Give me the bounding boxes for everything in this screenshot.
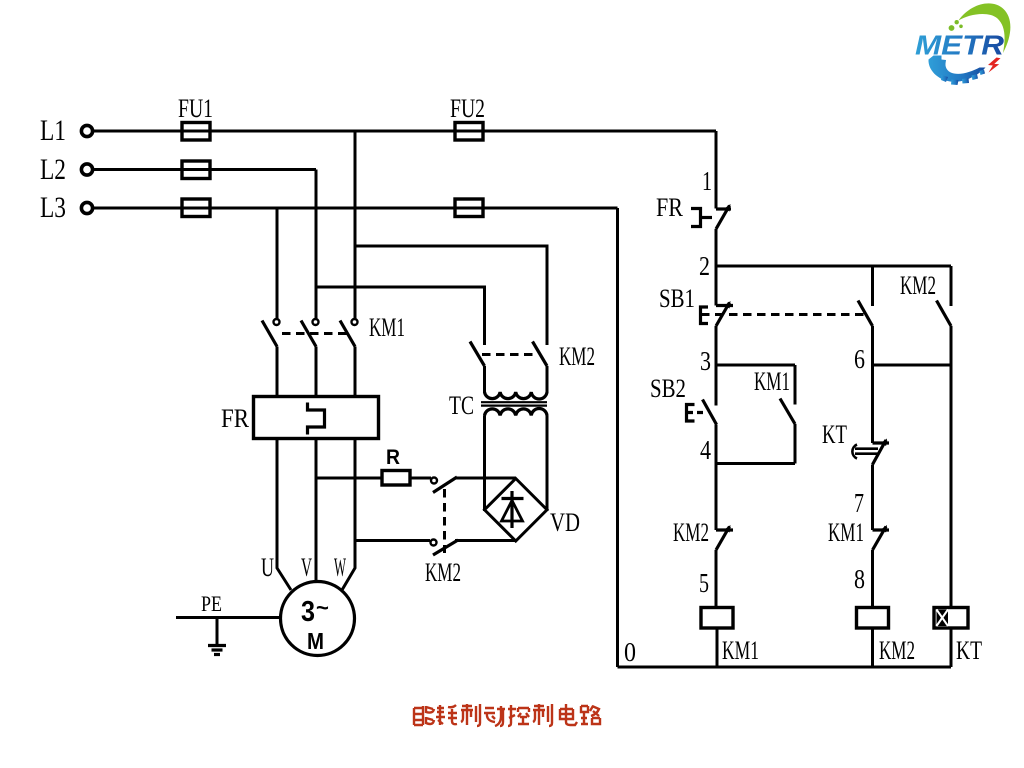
svg-text:3: 3 xyxy=(700,346,711,376)
contactor KM1 main contact pole1 xyxy=(262,319,280,397)
svg-text:W: W xyxy=(334,553,346,582)
svg-text:3: 3 xyxy=(301,596,315,628)
contactor KM2 interlock NC contact xyxy=(716,525,733,608)
contactor KM1 main contact pole2 xyxy=(301,319,319,397)
svg-text:6: 6 xyxy=(854,344,865,374)
node L2 xyxy=(40,153,66,186)
coil KT time relay xyxy=(934,608,968,668)
svg-text:R: R xyxy=(386,446,400,469)
title char 控 xyxy=(508,705,529,726)
wire node6 rail xyxy=(873,364,952,367)
fuse FU2 pole2 xyxy=(455,199,483,217)
contactor KM1 main contact pole3 xyxy=(340,319,358,397)
terminal L1 xyxy=(81,125,92,136)
svg-text:U: U xyxy=(261,553,274,582)
terminal L2 xyxy=(81,164,92,175)
mechanical link KM2 brake xyxy=(443,489,446,553)
svg-text:TC: TC xyxy=(449,391,474,420)
transformer TC primary winding xyxy=(485,392,548,399)
wire control feed from L1 xyxy=(715,131,718,209)
svg-text:KM1: KM1 xyxy=(722,636,759,665)
title char 电 xyxy=(560,704,577,725)
logo green swoosh xyxy=(959,3,1011,53)
wire TC secondary left to VD xyxy=(483,416,486,512)
contactor KM2 brake contact upper xyxy=(431,477,516,493)
title char 能 xyxy=(414,706,434,725)
svg-text:5: 5 xyxy=(699,568,709,598)
wire PE xyxy=(176,616,281,619)
svg-text:PE: PE xyxy=(201,591,222,616)
contactor KM1 latch NO contact xyxy=(780,365,795,464)
wire L3 rail xyxy=(93,207,618,210)
transformer TC secondary winding xyxy=(485,408,548,415)
wire branch from L1 vertical to KM2 right pole xyxy=(355,246,547,345)
motor M circle xyxy=(281,582,355,656)
svg-text:VD: VD xyxy=(550,508,580,537)
wire V phase to motor xyxy=(315,439,318,584)
svg-text:V: V xyxy=(301,553,312,582)
svg-text:FU2: FU2 xyxy=(450,94,485,123)
wire L2 rail xyxy=(93,168,316,171)
svg-text:FR: FR xyxy=(221,404,250,433)
wire bottom bus 0 xyxy=(618,666,952,669)
wire left control feed from L3 xyxy=(616,208,619,667)
svg-text:KM2: KM2 xyxy=(559,342,595,371)
node L3 xyxy=(40,191,66,224)
svg-text:SB1: SB1 xyxy=(659,284,695,313)
svg-text:KM1: KM1 xyxy=(369,313,405,342)
wire drop from L3 at x=277 xyxy=(276,208,279,322)
svg-text:FR: FR xyxy=(656,193,684,222)
svg-text:KT: KT xyxy=(822,420,847,449)
svg-text:KM2: KM2 xyxy=(425,558,461,587)
svg-text:L3: L3 xyxy=(40,191,66,224)
contactor KM1 interlock NC contact xyxy=(873,525,890,608)
relay FR control NC contact xyxy=(691,204,731,306)
pushbutton SB1 NC contact xyxy=(701,301,734,365)
node L1 xyxy=(40,114,66,147)
contactor KM2 latch NO contact xyxy=(937,266,952,608)
contactor KM2 main contact left pole xyxy=(470,342,485,394)
title char 动 xyxy=(484,706,505,726)
wire node4 rail xyxy=(716,462,795,465)
coil KM2 xyxy=(857,608,889,668)
wire L1 rail xyxy=(93,130,716,133)
svg-text:METR: METR xyxy=(915,30,1005,61)
terminal L3 xyxy=(81,202,92,213)
wire W phase to motor xyxy=(342,439,355,591)
contactor KM2 aux NO contact (SB1 linked) xyxy=(858,266,873,365)
svg-text:7: 7 xyxy=(854,488,864,518)
fuse FU1 pole2 xyxy=(182,161,210,179)
wire TC secondary right to VD xyxy=(546,416,549,512)
mechanical link KM1 main xyxy=(282,332,348,335)
title char 耗 xyxy=(436,705,457,725)
time relay KT delayed NC contact xyxy=(852,439,889,531)
svg-text:1: 1 xyxy=(702,166,712,196)
fuse FU1 pole1 xyxy=(178,94,213,140)
title char 制 xyxy=(461,704,480,726)
svg-text:FU1: FU1 xyxy=(178,94,213,123)
svg-text:KM2: KM2 xyxy=(673,518,709,547)
svg-text:L1: L1 xyxy=(40,114,66,147)
svg-text:KM2: KM2 xyxy=(900,271,936,300)
svg-text:KM2: KM2 xyxy=(879,636,915,665)
contactor KM2 brake contact lower xyxy=(431,540,516,556)
wire branch from L2 vertical to KM2 left pole xyxy=(316,287,485,345)
contactor KM2 main contact right pole xyxy=(533,342,548,394)
logo lightning bolt xyxy=(988,58,1001,73)
wire mid branch down xyxy=(871,365,874,443)
svg-text:L2: L2 xyxy=(40,153,66,186)
coil KM1 xyxy=(701,608,733,668)
svg-text:0: 0 xyxy=(624,637,636,667)
title char 制 xyxy=(533,704,552,726)
svg-text:2: 2 xyxy=(699,251,710,281)
title char 路 xyxy=(581,706,600,724)
svg-text:KM1: KM1 xyxy=(828,518,864,547)
wire R to brake contact xyxy=(410,477,431,480)
wire from W phase to lower brake contact xyxy=(355,539,430,542)
svg-text:SB2: SB2 xyxy=(650,374,686,403)
svg-text:KM1: KM1 xyxy=(754,367,790,396)
fuse FU2 pole1 xyxy=(450,94,485,140)
wire from V phase to resistor R xyxy=(316,477,382,480)
fuse FU1 pole3 xyxy=(182,199,210,217)
transformer TC core xyxy=(481,402,547,405)
svg-text:8: 8 xyxy=(854,564,865,594)
ground symbol xyxy=(208,618,226,655)
resistor R xyxy=(382,471,410,486)
svg-text:~: ~ xyxy=(316,595,329,620)
pushbutton SB2 NO contact xyxy=(687,365,717,464)
wire node3 rail xyxy=(716,364,795,367)
wire U phase to motor xyxy=(277,439,291,591)
logo gear xyxy=(928,56,985,86)
mechanical link KM2 main xyxy=(482,353,535,356)
wire node2 rail xyxy=(716,265,951,268)
overload relay FR heater box xyxy=(254,397,379,439)
wire drop from L2 at x=316 xyxy=(315,170,318,323)
title 能耗制动控制电路 (drawn strokes) xyxy=(414,704,600,726)
wire drop from L1 at x=355 xyxy=(354,131,357,322)
diode symbol inside VD xyxy=(502,491,524,528)
svg-text:KT: KT xyxy=(956,636,982,665)
svg-text:M: M xyxy=(307,628,324,654)
rectifier VD bridge diamond xyxy=(485,479,548,542)
mechanical link SB1 to KM2 aux NO xyxy=(701,313,866,316)
svg-text:4: 4 xyxy=(700,435,711,465)
logo green dots xyxy=(949,20,963,31)
wire main branch down xyxy=(715,464,718,531)
